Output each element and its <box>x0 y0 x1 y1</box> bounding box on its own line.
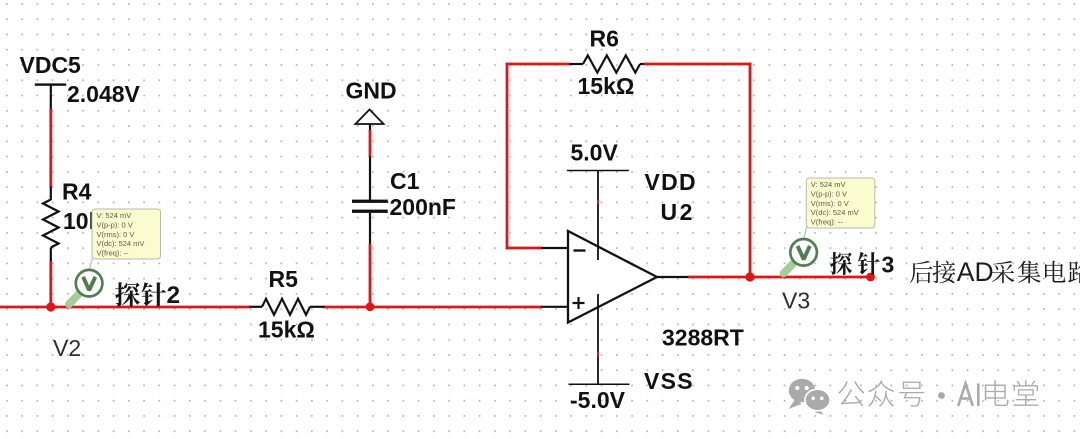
annotation text: hou jie AD caiji dianlu <box>910 257 1080 287</box>
svg-text:5.0V: 5.0V <box>571 140 619 166</box>
svg-text:2: 2 <box>167 282 181 309</box>
watermark WeChat icon <box>789 379 831 417</box>
probe 2 value tooltip <box>92 209 161 259</box>
wire main horizontal net V2 (left segment) <box>0 306 250 309</box>
resistor R5 <box>262 299 310 315</box>
wire C1 to main net red <box>369 244 372 309</box>
wire R6 left lead (black) <box>569 63 583 65</box>
VDD power pin and rail bar <box>567 171 629 261</box>
junction R5/C1 node <box>366 302 375 311</box>
wire opamp minus input red segment <box>506 247 542 250</box>
svg-text:-5.0V: -5.0V <box>570 387 626 413</box>
svg-text:V(p-p): 0 V: V(p-p): 0 V <box>97 221 133 230</box>
svg-text:15kΩ: 15kΩ <box>258 317 315 343</box>
ground symbol <box>355 110 383 125</box>
probe 3 label (tanzhen3) <box>830 251 894 277</box>
wire R5 to opamp plus input <box>323 306 542 309</box>
svg-text:V(p-p): 0 V: V(p-p): 0 V <box>811 190 847 199</box>
svg-text:C1: C1 <box>390 168 420 194</box>
probe 2 connector line <box>89 259 92 270</box>
svg-text:200nF: 200nF <box>390 194 456 220</box>
capacitor C1 <box>352 200 388 213</box>
svg-text:VDC5: VDC5 <box>20 52 82 78</box>
junction node V2 <box>46 302 55 311</box>
wire opamp output lead (black) <box>655 276 689 278</box>
svg-text:AD: AD <box>957 257 994 287</box>
wire feedback left vertical <box>506 63 509 250</box>
op-amp U2 <box>568 231 657 323</box>
wire GND stub (black) <box>369 124 371 131</box>
svg-text:R6: R6 <box>590 26 619 52</box>
svg-text:GND: GND <box>346 78 397 104</box>
watermark text gongzhonghao AI diantang <box>838 380 1038 406</box>
junction output/feedback node V3 <box>745 272 754 281</box>
resistor R6 <box>583 55 640 72</box>
wire R6 right lead (black) <box>640 63 645 65</box>
VSS power pin and rail bar <box>569 294 630 384</box>
svg-text:V(dc): 524 mV: V(dc): 524 mV <box>811 208 859 217</box>
wire feedback right vertical <box>749 63 752 277</box>
probe 3 connector line <box>804 228 807 239</box>
wire output net V3 <box>688 276 871 279</box>
wire GND to C1 red <box>369 130 372 158</box>
wire R4 bottom lead (black) <box>50 248 52 263</box>
svg-text:R5: R5 <box>269 266 299 292</box>
svg-text:V(freq): --: V(freq): -- <box>97 248 130 257</box>
probe 2 label (tanzhen2) <box>115 282 180 309</box>
svg-text:V(rms): 0 V: V(rms): 0 V <box>811 199 849 208</box>
wire opamp plus input lead (black) <box>541 306 569 308</box>
svg-text:V(freq): --: V(freq): -- <box>811 217 844 226</box>
svg-text:V: 524 mV: V: 524 mV <box>97 211 132 220</box>
wire opamp minus input lead (black) <box>541 247 569 249</box>
resistor R4 <box>43 200 59 248</box>
svg-text:2.048V: 2.048V <box>67 81 141 107</box>
svg-text:V: 524 mV: V: 524 mV <box>811 180 846 189</box>
svg-text:VSS: VSS <box>644 368 694 394</box>
svg-text:15kΩ: 15kΩ <box>578 73 635 99</box>
voltage source VDC5 bar <box>35 83 66 85</box>
svg-text:V3: V3 <box>782 288 810 314</box>
svg-text:V(rms): 0 V: V(rms): 0 V <box>97 230 135 239</box>
wire R4 top lead (black) <box>50 187 52 201</box>
wire R5 right lead (black) <box>310 306 325 308</box>
svg-text:U2: U2 <box>661 199 695 225</box>
svg-text:V2: V2 <box>53 335 81 361</box>
svg-text:R4: R4 <box>62 179 92 205</box>
svg-text:3: 3 <box>882 251 895 277</box>
wire VDC5 stem black upper <box>50 85 52 111</box>
wire feedback top right segment <box>644 63 751 66</box>
svg-text:3288RT: 3288RT <box>662 325 744 351</box>
svg-text:V(dc): 524 mV: V(dc): 524 mV <box>97 239 145 248</box>
svg-text:VDD: VDD <box>645 169 697 195</box>
wire VDC5 to R4 red <box>49 109 52 187</box>
wire end terminal dot <box>866 273 875 282</box>
wire C1 top lead (black) <box>369 157 371 201</box>
wire R4 to main net red <box>49 262 52 309</box>
wire C1 bottom lead (black) <box>369 213 371 245</box>
wire R5 left lead (black) <box>249 306 262 308</box>
wire feedback top left segment <box>506 63 570 66</box>
probe 3 magnifier symbol <box>784 239 817 273</box>
probe 3 value tooltip <box>806 178 875 228</box>
probe 2 magnifier symbol <box>69 270 102 304</box>
